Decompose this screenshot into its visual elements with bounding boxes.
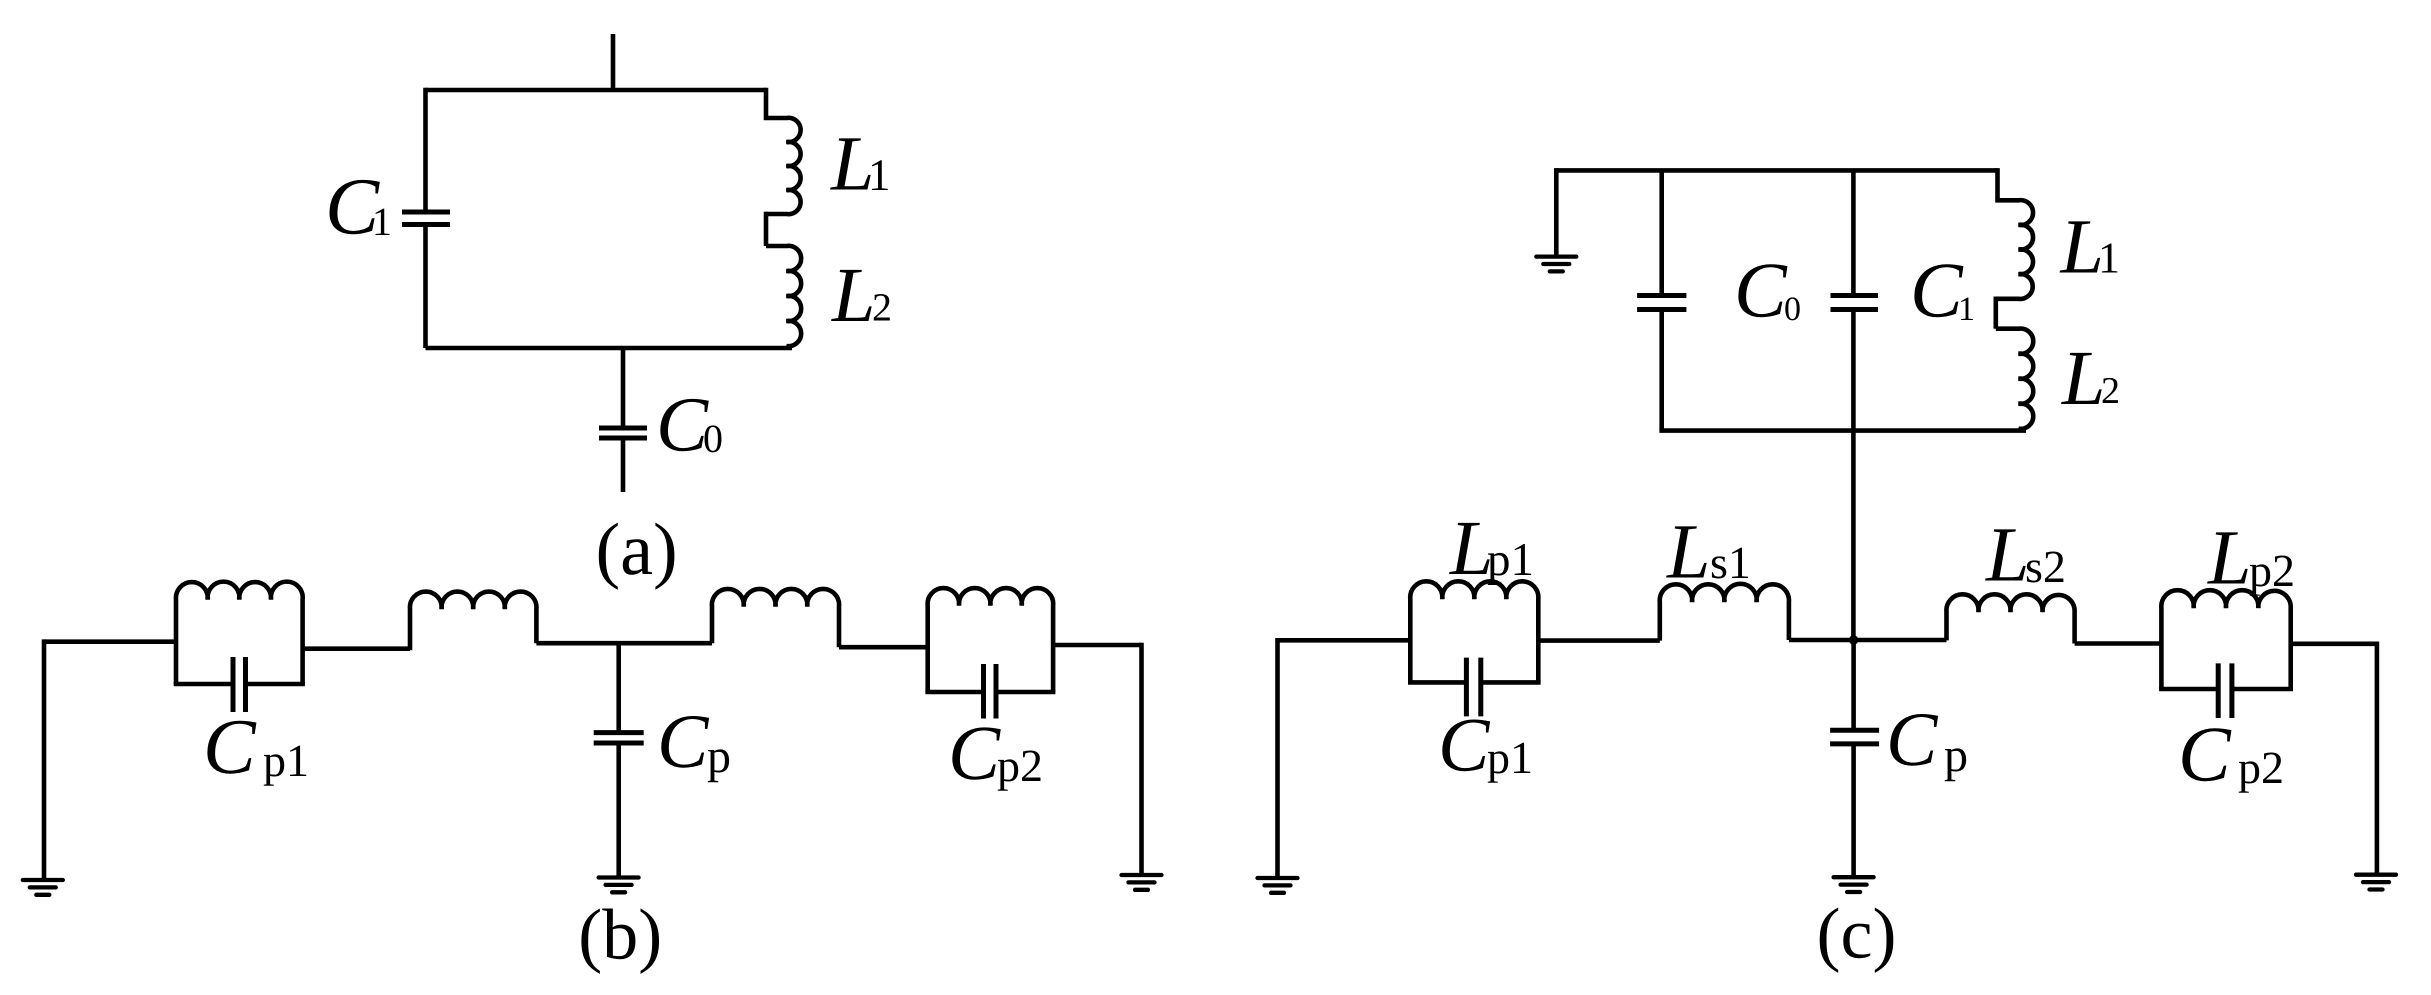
capacitor Cp <box>594 733 644 743</box>
wire C0 branch upper <box>1659 170 1664 293</box>
label C1 <box>330 180 390 235</box>
label L1 of (c) <box>2060 221 2118 272</box>
capacitor Cp2 (vertical plates) <box>984 664 997 719</box>
wire Cp to ground <box>616 743 621 878</box>
capacitor C0 <box>599 428 647 438</box>
wire Cp2 bottom edge left <box>925 690 981 695</box>
label Cp1 <box>207 721 306 786</box>
wire coil1 to junction to coil2 <box>536 641 712 646</box>
inductor L1 <box>766 88 801 214</box>
capacitor C1 <box>402 212 450 225</box>
caption (b) <box>581 909 659 974</box>
wire right port vertical <box>1139 643 1144 875</box>
wire C0 branch lower <box>1659 310 1664 431</box>
inductor L2 <box>766 246 801 348</box>
label Cp2 of (c) <box>2182 728 2281 793</box>
label Cp of (c) <box>1890 714 1966 781</box>
label Cp2 <box>952 727 1040 790</box>
wire Cp1 bottom edge right <box>248 682 305 687</box>
wire Ls2 to Lp2 <box>2075 641 2162 646</box>
wire C0 branch upper <box>621 348 626 426</box>
wire Cp1 to Ls coil1 <box>303 646 410 651</box>
label L2 <box>831 270 890 321</box>
ground Cp <box>599 878 639 893</box>
inductor of Cp2 tank <box>928 588 1054 692</box>
wire Cp2 to right port <box>1053 643 1141 648</box>
wire bottom horizontal <box>426 346 793 351</box>
wire C1 branch upper <box>1851 170 1856 293</box>
capacitor Cp1 of (c) (vertical plates) <box>1466 658 1480 717</box>
capacitor Cp of (c) <box>1830 730 1879 744</box>
wire Lp2 to right port <box>2291 641 2377 646</box>
wire Lp1 bottom edge right <box>1483 680 1541 685</box>
wire Cp branch of (c) <box>1851 640 1856 728</box>
inductor L2 of (c) <box>1996 329 2033 431</box>
wire left port horizontal of (c) <box>1278 638 1411 643</box>
wire Lp1 to Ls1 <box>1538 638 1660 643</box>
ground right port of (c) <box>2356 875 2396 890</box>
wire Cp1 bottom edge left <box>174 682 231 687</box>
ground right port <box>1122 875 1162 890</box>
inductor Lp2 tank coil <box>2161 590 2290 689</box>
caption (c) <box>1820 908 1894 973</box>
wire ground stub of (c) <box>1554 168 1559 257</box>
node junction dot <box>1849 635 1858 644</box>
label Lp2 <box>2207 532 2292 595</box>
inductor Ls1 <box>1660 584 1789 641</box>
wire left vertical upper <box>423 88 428 211</box>
wire right port vertical of (c) <box>2375 642 2380 875</box>
label Ls1 <box>1666 526 1748 578</box>
wire C0 branch lower <box>621 438 626 492</box>
wire top horizontal <box>426 88 767 93</box>
ground left port <box>23 880 63 895</box>
wire left vertical lower <box>423 225 428 349</box>
wire top horizontal of (c) <box>1556 168 1997 173</box>
label Lp1 <box>1449 523 1531 585</box>
inductor series 1 of (b) <box>410 592 537 651</box>
ground top of (c) <box>1536 257 1576 272</box>
label L1 <box>830 138 888 190</box>
wire Lp2 bottom edge left <box>2159 687 2216 692</box>
caption (a) <box>599 523 675 590</box>
wire Cp of (c) to ground <box>1851 744 1856 877</box>
label C0 of (c) <box>1738 264 1799 320</box>
ground left port of (c) <box>1258 878 1298 893</box>
inductor Lp1 tank coil <box>1410 581 1538 682</box>
wire left port vertical of (c) <box>1275 638 1280 878</box>
wire coil2 to Cp2 <box>839 645 928 650</box>
inductor series 2 of (b) <box>712 589 839 647</box>
wire between L1 and L2 of (c) <box>1994 297 1999 329</box>
capacitor Cp1 (vertical plates) <box>233 657 246 712</box>
label Ls2 <box>1985 529 2063 582</box>
wire C1 branch down to junction <box>1851 310 1856 641</box>
inductor Ls2 <box>1946 594 2074 643</box>
label C1 of (c) <box>1914 264 1973 320</box>
wire bottom horizontal of (c) loop <box>1659 428 2026 433</box>
wire left port vertical <box>42 639 47 880</box>
label C0 <box>660 399 721 453</box>
inductor L1 of (c) <box>1996 168 2033 299</box>
label L2 of (c) <box>2061 353 2118 404</box>
node top terminal stub <box>611 34 616 90</box>
inductor of Cp1 tank (block left edge, coil, right edge) <box>176 582 303 684</box>
wire left port horizontal <box>44 639 176 644</box>
label Cp1 of (c) <box>1442 720 1530 783</box>
capacitor Cp2 of (c) (vertical plates) <box>2218 663 2232 718</box>
wire Lp2 bottom edge right <box>2234 687 2293 692</box>
capacitor C1 of (c) <box>1831 296 1879 310</box>
wire Cp branch <box>616 643 621 730</box>
wire Cp2 bottom edge right <box>998 690 1055 695</box>
wire between L1 and L2 <box>764 212 769 246</box>
label Cp <box>661 716 729 782</box>
capacitor C0 of (c) <box>1637 296 1686 310</box>
ground Cp of (c) <box>1834 877 1874 892</box>
wire Ls1 to junction to Ls2 <box>1789 638 1947 643</box>
wire Lp1 bottom edge left <box>1408 680 1464 685</box>
